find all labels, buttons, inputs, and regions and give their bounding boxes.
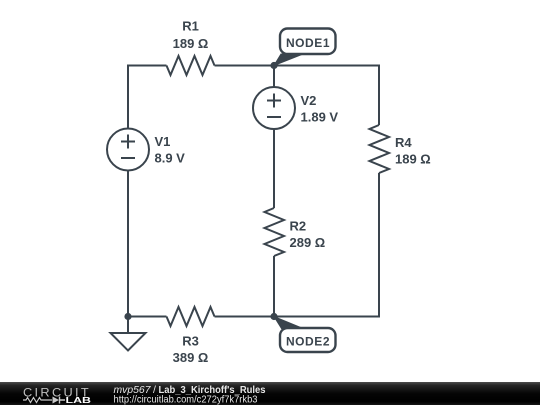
svg-text:V1: V1 <box>155 134 171 149</box>
V2 minus sign <box>267 116 281 118</box>
svg-text:NODE2: NODE2 <box>286 334 330 348</box>
svg-text:R3: R3 <box>182 334 199 349</box>
resistor R3 <box>167 307 215 326</box>
wire: right vertical (R4 to bottom corner) <box>378 173 380 318</box>
V1 plus sign <box>121 135 135 149</box>
svg-text:R1: R1 <box>182 19 199 34</box>
svg-text:V2: V2 <box>301 93 317 108</box>
V2 plus sign <box>267 94 281 108</box>
NODE2 callout tail <box>274 317 303 329</box>
resistor R1 <box>167 56 215 75</box>
wire: V2 bottom to R2 top <box>273 129 275 208</box>
resistor R2 <box>265 208 285 256</box>
node junction dot at ground <box>124 313 131 320</box>
voltage source V2 <box>253 87 295 129</box>
wire: left vertical (top corner to V1 top) <box>127 66 129 130</box>
wire: R2 bottom to NODE2 junction <box>273 256 275 317</box>
svg-text:8.9 V: 8.9 V <box>155 151 186 166</box>
footer bar <box>0 382 540 405</box>
CircuitLab logo diode <box>53 397 60 404</box>
resistor R4 <box>370 125 390 173</box>
svg-text:189 Ω: 189 Ω <box>395 152 431 167</box>
ground: stub wire <box>127 317 129 334</box>
svg-text:1.89 V: 1.89 V <box>301 110 339 125</box>
NODE2 callout box <box>280 328 336 352</box>
svg-text:LAB: LAB <box>66 396 92 405</box>
svg-text:189 Ω: 189 Ω <box>173 36 209 51</box>
svg-text:289 Ω: 289 Ω <box>290 235 326 250</box>
V1 minus sign <box>121 157 135 159</box>
wire: bottom horizontal (ground junction to R3) <box>128 316 167 318</box>
voltage source V1 <box>107 129 149 171</box>
svg-text:http://circuitlab.com/c272yf7k: http://circuitlab.com/c272yf7k7rkb3 <box>114 393 258 405</box>
wire: NODE1 junction down to V2 top <box>273 66 275 88</box>
wire: right vertical (top corner to R4) <box>378 65 380 126</box>
NODE1 callout box <box>280 29 336 55</box>
wire: top horizontal right segment (R1 to top-right corner) <box>215 65 381 67</box>
wire: top horizontal left segment (corner to R1) <box>127 65 167 67</box>
svg-text:389 Ω: 389 Ω <box>173 350 209 365</box>
CircuitLab logo resistor zigzag <box>23 398 52 403</box>
node junction dot NODE1 <box>270 62 277 69</box>
wire: bottom horizontal (R3 to bottom-right corner) <box>215 316 381 318</box>
svg-text:R4: R4 <box>395 135 412 150</box>
ground symbol <box>111 333 146 351</box>
svg-text:NODE1: NODE1 <box>286 36 330 50</box>
node junction dot NODE2 <box>270 313 277 320</box>
NODE1 callout tail <box>274 54 303 66</box>
wire: left vertical (V1 bottom to ground junction) <box>127 170 129 317</box>
svg-text:R2: R2 <box>290 219 307 234</box>
